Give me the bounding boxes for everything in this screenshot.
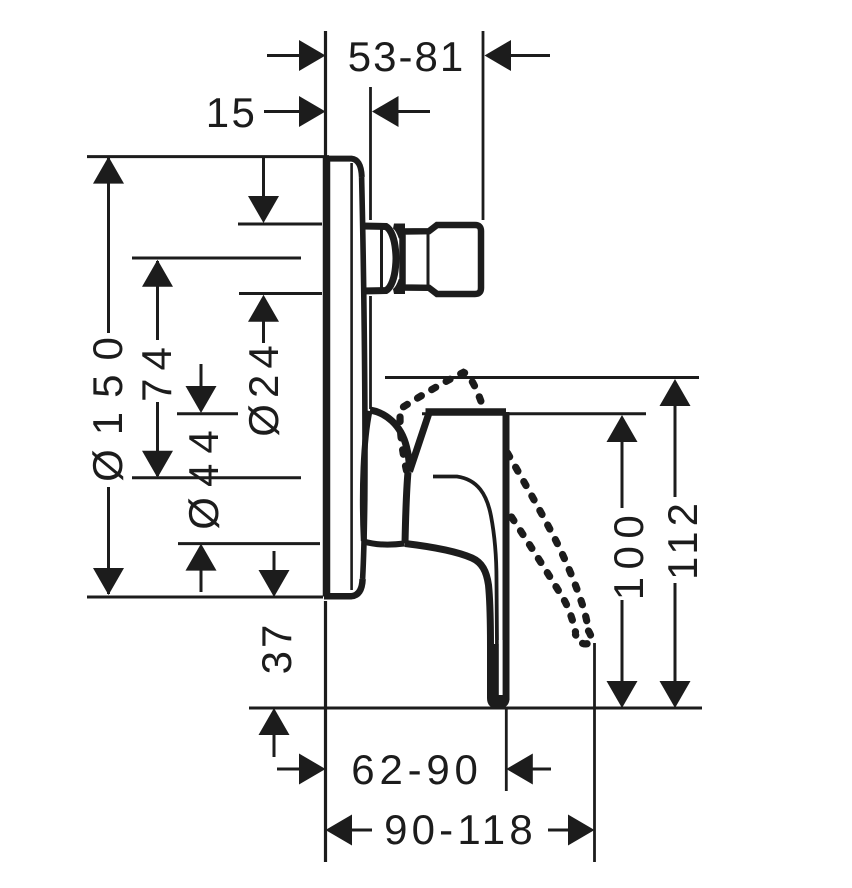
svg-text:53-81: 53-81 <box>348 33 465 80</box>
dimension 74 line upper <box>156 261 159 340</box>
handle hub top edge <box>426 408 507 416</box>
raised handle dashed upper outline <box>400 372 484 470</box>
extension line vertical x594 (raised handle tip) <box>593 643 596 862</box>
dimension 15 left stem <box>264 110 300 113</box>
handle lever tip slit <box>499 640 503 695</box>
arrowhead 112 bottom (points down at y708) <box>660 681 691 708</box>
diverter knob waist lower fill <box>393 279 405 294</box>
dimension 15 right stem <box>397 110 430 113</box>
arrowhead 15 left (points right at x326) <box>299 96 326 127</box>
extension line vertical x326 bottom <box>324 601 327 862</box>
arrowhead Ø150 bottom (points down) <box>93 568 124 595</box>
arrowhead 37 top (points down at y597) <box>259 570 290 597</box>
extension line horizontal y293 (knob bottom) <box>239 292 322 295</box>
diverter knob sleeve inner line <box>380 229 383 288</box>
extension line horizontal y708 (handle bottom reference) <box>249 707 702 710</box>
svg-text:Ø150: Ø150 <box>84 323 131 482</box>
diverter knob waist upper fill <box>393 224 405 239</box>
arrowhead Ø44 bottom (points up at y543) <box>186 544 217 571</box>
svg-text:74: 74 <box>133 339 180 402</box>
dimension 37 bottom arrow stem <box>273 734 276 757</box>
svg-text:90-118: 90-118 <box>384 806 537 853</box>
extension line horizontal y224 (knob top) <box>238 223 322 226</box>
dimension 90-118 right stem <box>548 829 569 832</box>
arrowhead 112 top (points up at y378) <box>660 379 691 406</box>
arrowhead 90-118 right (points right at x594) <box>568 815 595 846</box>
arrowhead Ø24 top (points down at y224) <box>248 196 279 223</box>
arrowhead Ø24 bottom (points up at y293) <box>248 295 279 322</box>
arrowhead 100 top (points up at y414) <box>607 415 638 442</box>
svg-text:Ø24: Ø24 <box>240 339 287 436</box>
dimension 53-81 dim line right stem <box>510 54 550 57</box>
dimension 112 line upper <box>674 406 677 497</box>
dimension 100 line lower <box>621 600 624 682</box>
handle hub left vertical <box>405 472 408 544</box>
dimension Ø44 top arrow stem <box>200 364 203 387</box>
svg-text:62-90: 62-90 <box>351 746 482 793</box>
handle sleeve front edge <box>363 411 370 541</box>
extension line horizontal y414 right (hub top / 100 top) <box>422 412 646 415</box>
dimension 62-90 right stem <box>531 768 551 771</box>
extension line vertical x370 (finished wall) upper <box>369 87 372 220</box>
arrowhead 53-81 left (points right at x326) <box>299 40 326 71</box>
dimension 53-81 dim line left stem <box>267 54 301 57</box>
dimension Ø44 bottom arrow stem <box>200 570 203 592</box>
raised handle dashed right edge lower <box>508 453 589 631</box>
handle sleeve bottom edge <box>364 542 405 545</box>
arrowhead 62-90 right (points left at x506) <box>506 754 533 785</box>
wall plate bottom edge <box>324 579 363 596</box>
handle hub left slant <box>410 413 430 472</box>
arrowhead 15 right (points left at x372) <box>372 96 399 127</box>
extension line vertical x370 (finished wall) lower <box>369 296 372 409</box>
dimension 90-118 left stem <box>351 829 372 832</box>
extension line horizontal y543 (sleeve bottom / 44 bottom) <box>178 542 320 545</box>
extension line horizontal y258 (knob axis / 74 top) <box>132 257 301 260</box>
arrowhead Ø44 top (points down at y414) <box>186 386 217 413</box>
wall plate back edge <box>362 177 365 579</box>
dimension 62-90 left stem <box>277 768 299 771</box>
handle lever right edge <box>503 412 510 700</box>
svg-text:100: 100 <box>605 508 652 601</box>
arrowhead 53-81 right (points left at x483) <box>485 40 512 71</box>
extension line vertical x326 top (wall plate front) <box>324 31 327 156</box>
diverter knob mid+cap outline <box>403 225 482 294</box>
extension line horizontal y377 (raised handle top / 112 top) <box>385 376 699 379</box>
arrowhead 100 bottom (points down at y708) <box>607 681 638 708</box>
svg-text:15: 15 <box>206 89 258 136</box>
wall plate seam line <box>350 163 353 590</box>
diverter knob sleeve <box>362 226 396 291</box>
extension line horizontal y478 (handle axis / 74 bottom) <box>132 476 301 479</box>
handle lever inner curve <box>433 477 497 649</box>
dimension Ø24 bottom arrow stem <box>262 321 265 343</box>
svg-text:37: 37 <box>253 622 300 675</box>
svg-text:112: 112 <box>659 498 706 580</box>
extension line vertical x506 (handle tip) <box>505 708 508 791</box>
dimension 74 line lower <box>156 402 159 476</box>
dimension Ø150 line lower <box>107 487 110 594</box>
extension line horizontal y597 (plate bottom) <box>87 596 323 599</box>
svg-text:Ø44: Ø44 <box>180 420 227 529</box>
extension line horizontal y414 left stub (hub top / 44 top) <box>177 412 238 415</box>
dimension 112 line lower <box>674 583 677 682</box>
extension line horizontal y156 (plate top) <box>87 155 329 158</box>
dimension Ø24 top arrow stem <box>262 158 265 198</box>
arrowhead 62-90 left (points right at x326) <box>299 754 326 785</box>
arrowhead 90-118 left (points left at x326) <box>326 815 353 846</box>
arrowhead 74 bottom (points down) <box>142 451 173 478</box>
handle lever tip fill <box>487 644 510 709</box>
handle sleeve dome arc <box>370 410 409 467</box>
arrowhead Ø150 top (points up) <box>93 157 124 184</box>
raised handle dashed left edge <box>512 517 576 632</box>
dimension 100 line upper <box>621 442 624 508</box>
wall plate front edge <box>323 157 331 597</box>
wall plate top edge <box>324 159 362 177</box>
handle lever outer edge <box>405 544 491 649</box>
dimension Ø150 line upper <box>107 158 110 333</box>
raised handle dashed tip arc <box>576 631 592 644</box>
extension line vertical x483 (53-81 right) <box>482 31 485 220</box>
dimension 37 top arrow stem <box>273 551 276 571</box>
arrowhead 37 bottom (points up at y708) <box>259 708 290 735</box>
diverter knob cap inner line <box>427 234 430 285</box>
arrowhead 74 top (points up) <box>142 260 173 287</box>
